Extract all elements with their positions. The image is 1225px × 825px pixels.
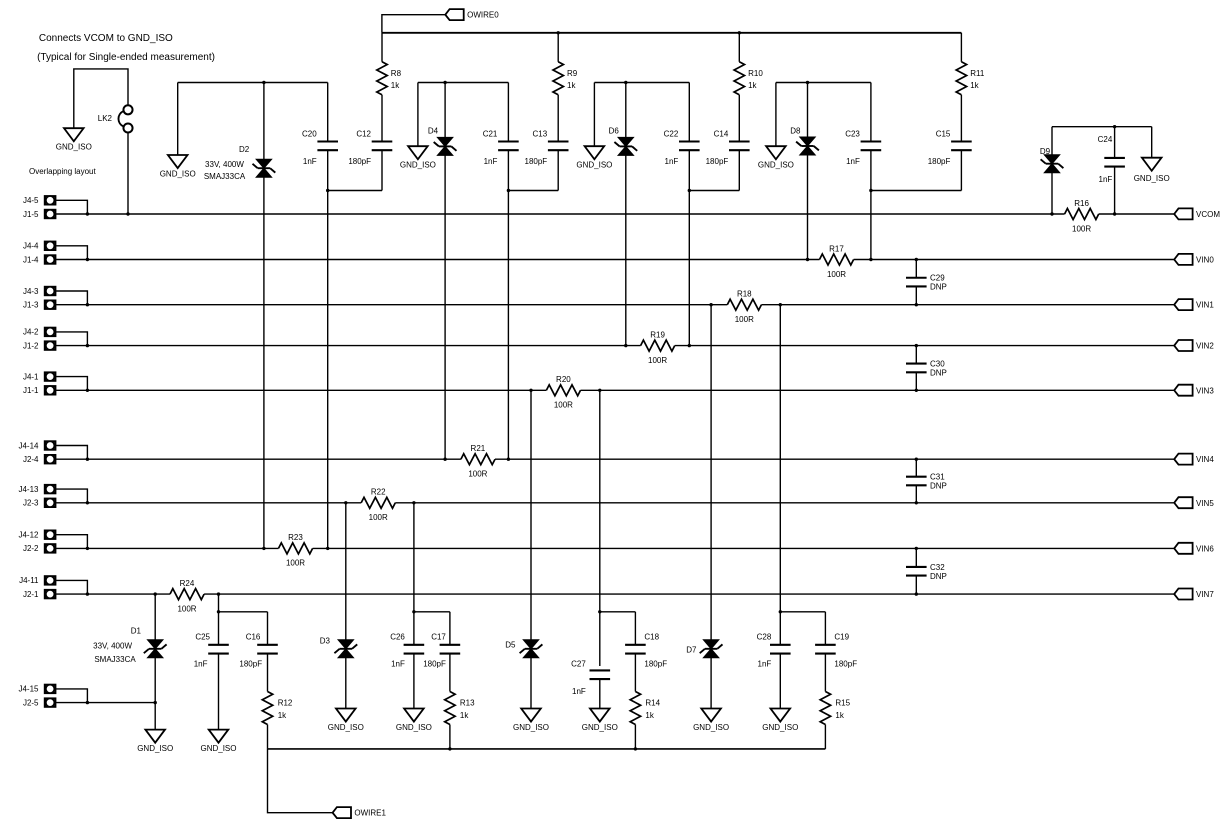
connector pin J2-2 (45, 544, 55, 552)
svg-text:J1-3: J1-3 (23, 301, 39, 310)
connector pin J1-1 (45, 386, 55, 394)
wire D4 gnd stem (417, 83, 419, 147)
wire J4-11 stub (56, 580, 87, 594)
connector pin J4-5 (45, 196, 55, 204)
svg-text:1k: 1k (391, 81, 400, 90)
wire VIN2 row left segment (56, 345, 641, 347)
svg-text:C12: C12 (356, 130, 371, 139)
wire C28 bottom lead (779, 654, 781, 709)
svg-text:GND_ISO: GND_ISO (400, 161, 436, 170)
ground GND_ISO (D7) (701, 709, 721, 722)
wire J4-2 stub (56, 332, 87, 346)
wire D4 block top rail (418, 82, 509, 84)
connector pin J1-3 (45, 301, 55, 309)
link LK2 (123, 105, 132, 114)
connector pin J4-14 (45, 441, 55, 449)
TVS diode D3 (338, 640, 354, 649)
wire C21 join 180pF (508, 190, 558, 192)
wire J4-3 stub (56, 291, 87, 305)
svg-text:C25: C25 (195, 633, 210, 642)
svg-text:J1-4: J1-4 (23, 255, 39, 264)
wire C32 top lead (915, 548, 917, 567)
svg-text:180pF: 180pF (834, 660, 857, 669)
svg-text:1k: 1k (567, 81, 576, 90)
wire D4 vertical (444, 83, 446, 460)
svg-text:1k: 1k (460, 711, 469, 720)
connector pin J4-1 (45, 373, 55, 381)
svg-text:GND_ISO: GND_ISO (396, 723, 432, 732)
net flag VCOM (1174, 208, 1192, 219)
wire C23 join 180pF (871, 190, 962, 192)
wire VIN3 row left segment (56, 389, 546, 391)
svg-text:1nF: 1nF (1099, 175, 1113, 184)
svg-text:1nF: 1nF (758, 660, 772, 669)
connector pin J4-3 (45, 287, 55, 295)
svg-text:C16: C16 (246, 633, 261, 642)
svg-text:1k: 1k (835, 711, 844, 720)
resistor R8 1k (377, 62, 387, 95)
wire C24 vertical bottom (1114, 167, 1116, 214)
wire VIN6 row left segment (56, 547, 278, 549)
svg-text:R13: R13 (460, 698, 475, 707)
capacitor C14 180pF (729, 140, 750, 142)
svg-text:180pF: 180pF (348, 157, 371, 166)
wire D6 block top rail (594, 82, 689, 84)
wire D3 vertical (345, 503, 347, 709)
connector pin J4-13 (45, 485, 55, 493)
TVS diode D7 (703, 640, 719, 649)
svg-text:R24: R24 (180, 579, 195, 588)
svg-text:180pF: 180pF (928, 157, 951, 166)
wire C21 vertical top (507, 83, 509, 142)
svg-text:C27: C27 (571, 660, 586, 669)
wire VIN7 row right segment (204, 593, 1174, 595)
wire C19 top lead (824, 612, 826, 645)
capacitor C26 1nF (404, 644, 425, 646)
wire C23 vertical top (870, 83, 872, 142)
ground GND_ISO (D1) (145, 730, 165, 743)
svg-text:D6: D6 (609, 127, 620, 136)
svg-text:C23: C23 (845, 130, 860, 139)
wire OWIRE1 stem (268, 749, 333, 813)
svg-text:OWIRE1: OWIRE1 (354, 809, 386, 818)
svg-text:1k: 1k (645, 711, 654, 720)
capacitor C24 1nF (1104, 157, 1125, 159)
svg-text:33V, 400W: 33V, 400W (93, 642, 132, 651)
svg-text:C15: C15 (936, 130, 951, 139)
capacitor C29 DNP (906, 277, 927, 279)
TVS diode D5 (523, 640, 539, 649)
svg-text:100R: 100R (468, 470, 487, 479)
wire C17 top lead (449, 612, 451, 645)
connector pin J4-2 (45, 328, 55, 336)
resistor R20 100R (546, 385, 580, 396)
wire block1 branch (219, 611, 268, 613)
svg-text:GND_ISO: GND_ISO (137, 744, 173, 753)
wire C31 bottom lead (915, 485, 917, 502)
svg-text:C24: C24 (1098, 135, 1113, 144)
resistor R14 1k (630, 692, 640, 725)
svg-text:GND_ISO: GND_ISO (160, 169, 196, 178)
resistor R13 1k (445, 692, 455, 725)
svg-text:1nF: 1nF (572, 687, 586, 696)
wire C28 riser (779, 305, 781, 645)
svg-text:VCOM: VCOM (1196, 210, 1220, 219)
svg-text:C22: C22 (664, 130, 679, 139)
wire D9 vertical (1051, 127, 1053, 214)
svg-text:GND_ISO: GND_ISO (693, 723, 729, 732)
connector pin J2-3 (45, 499, 55, 507)
TVS diode D4 (437, 137, 453, 146)
capacitor C28 1nF (770, 644, 791, 646)
resistor R19 100R (641, 340, 675, 351)
net flag VIN2 (1174, 340, 1192, 351)
svg-text:J1-5: J1-5 (23, 210, 39, 219)
svg-text:VIN6: VIN6 (1196, 544, 1214, 553)
svg-text:VIN3: VIN3 (1196, 386, 1214, 395)
svg-text:R19: R19 (650, 330, 665, 339)
wire D8 gnd stem (775, 83, 777, 147)
svg-text:D9: D9 (1040, 147, 1051, 156)
wire VIN5 row left segment (56, 502, 361, 504)
wire C12 bottom lead (381, 150, 383, 190)
svg-text:1nF: 1nF (665, 157, 679, 166)
svg-text:D2: D2 (239, 145, 250, 154)
wire J2-5 to D1 (56, 702, 155, 704)
wire LK2 to VCOM (127, 133, 129, 214)
wire R8 bottom lead (381, 95, 383, 142)
svg-text:J4-3: J4-3 (23, 287, 39, 296)
ground GND_ISO (D6 block) (585, 146, 605, 159)
svg-text:1nF: 1nF (391, 660, 405, 669)
svg-text:Overlapping layout: Overlapping layout (29, 167, 96, 176)
svg-text:100R: 100R (827, 270, 846, 279)
wire VIN1 row right segment (761, 304, 1174, 306)
svg-text:1nF: 1nF (194, 660, 208, 669)
svg-text:1k: 1k (970, 81, 979, 90)
svg-text:100R: 100R (648, 356, 667, 365)
net flag VIN5 (1174, 497, 1192, 508)
wire VCOM row right segment (1099, 213, 1175, 215)
svg-text:C31: C31 (930, 473, 945, 482)
wire C24 vertical top (1114, 127, 1116, 158)
svg-text:180pF: 180pF (239, 660, 262, 669)
wire J4-5 stub (56, 200, 87, 214)
wire C22 vertical top (688, 83, 690, 142)
svg-text:D5: D5 (505, 641, 516, 650)
resistor R17 100R (820, 254, 854, 265)
wire D9 gnd stem (1151, 127, 1153, 158)
svg-text:GND_ISO: GND_ISO (56, 143, 92, 152)
net flag VIN6 (1174, 543, 1192, 554)
connector pin J4-4 (45, 242, 55, 250)
wire R11 top lead (960, 33, 962, 62)
wire D2 vertical (263, 83, 265, 549)
svg-text:J4-2: J4-2 (23, 328, 39, 337)
wire D7 vertical (710, 305, 712, 709)
resistor R15 1k (820, 692, 830, 725)
resistor R21 100R (461, 454, 495, 465)
connector pin J2-4 (45, 455, 55, 463)
capacitor C23 1nF (861, 140, 882, 142)
wire OWIRE1 bus (268, 748, 826, 750)
wire C18 to R14 (634, 654, 636, 692)
wire VIN2 row right segment (675, 345, 1174, 347)
capacitor C32 DNP (906, 566, 927, 568)
svg-text:1nF: 1nF (484, 157, 498, 166)
svg-text:GND_ISO: GND_ISO (513, 723, 549, 732)
wire C20 vertical bottom (327, 150, 329, 548)
wire LK2 gnd bracket (74, 69, 128, 128)
wire C16 to R12 (267, 654, 269, 692)
wire D5 vertical (530, 390, 532, 708)
wire D2 gnd stem (177, 83, 179, 156)
svg-text:180pF: 180pF (706, 157, 729, 166)
wire J4-1 stub (56, 377, 87, 391)
ground GND_ISO (D5) (521, 709, 541, 722)
svg-text:R14: R14 (645, 698, 660, 707)
connector pin J1-2 (45, 342, 55, 350)
wire C16 top lead (267, 612, 269, 645)
svg-text:D3: D3 (320, 637, 331, 646)
ground GND_ISO (D3) (336, 709, 356, 722)
svg-text:OWIRE0: OWIRE0 (467, 11, 499, 20)
svg-text:1k: 1k (748, 81, 757, 90)
svg-text:J4-1: J4-1 (23, 372, 39, 381)
ground GND_ISO (C27) (590, 709, 610, 722)
ground GND_ISO (LK2) (64, 128, 84, 141)
svg-text:R21: R21 (471, 444, 486, 453)
ground GND_ISO (C26) (404, 709, 424, 722)
svg-text:J2-2: J2-2 (23, 544, 39, 553)
ground GND_ISO (D8 block) (766, 146, 786, 159)
wire D8 vertical (807, 83, 809, 260)
net flag VIN4 (1174, 454, 1192, 465)
wire VIN4 row right segment (495, 458, 1174, 460)
svg-text:C28: C28 (757, 633, 772, 642)
capacitor C16 180pF (257, 644, 278, 646)
wire R14 to bus (634, 725, 636, 749)
svg-text:180pF: 180pF (525, 157, 548, 166)
capacitor C27 1nF (590, 669, 611, 671)
svg-text:100R: 100R (177, 604, 196, 613)
svg-text:1nF: 1nF (303, 157, 317, 166)
wire VIN0 row left segment (56, 259, 819, 261)
svg-text:J4-11: J4-11 (19, 576, 39, 585)
wire C18 top lead (634, 612, 636, 645)
wire D3 block branch (414, 611, 450, 613)
TVS diode D1 (147, 640, 163, 649)
svg-text:J2-3: J2-3 (23, 499, 39, 508)
ground GND_ISO (D4 block) (408, 146, 428, 159)
svg-text:SMAJ33CA: SMAJ33CA (94, 655, 136, 664)
svg-text:VIN2: VIN2 (1196, 342, 1214, 351)
svg-text:R10: R10 (748, 69, 763, 78)
wire C22 join 180pF (689, 190, 739, 192)
svg-text:180pF: 180pF (423, 660, 446, 669)
capacitor C25 1nF (208, 644, 229, 646)
capacitor C17 180pF (440, 644, 461, 646)
svg-text:J4-4: J4-4 (23, 242, 39, 251)
wire C26 riser (413, 503, 415, 645)
svg-text:J2-1: J2-1 (23, 590, 39, 599)
capacitor C13 180pF (548, 140, 569, 142)
svg-text:D7: D7 (686, 645, 697, 654)
connector pin J4-15 (45, 685, 55, 693)
svg-text:C32: C32 (930, 563, 945, 572)
wire VIN4 row left segment (56, 458, 461, 460)
wire C29 top lead (915, 260, 917, 278)
wire C32 bottom lead (915, 576, 917, 595)
svg-text:C13: C13 (533, 130, 548, 139)
svg-text:C21: C21 (483, 130, 498, 139)
wire R9 top lead (557, 33, 559, 62)
net flag VIN7 (1174, 589, 1192, 600)
svg-text:33V, 400W: 33V, 400W (205, 160, 244, 169)
svg-text:R16: R16 (1074, 199, 1089, 208)
net flag VIN1 (1174, 299, 1192, 310)
svg-text:C29: C29 (930, 274, 945, 283)
svg-text:100R: 100R (286, 559, 305, 568)
svg-text:LK2: LK2 (98, 114, 113, 123)
svg-text:J4-15: J4-15 (18, 685, 39, 694)
svg-text:VIN5: VIN5 (1196, 499, 1214, 508)
wire C25 riser (218, 594, 220, 645)
net flag OWIRE1 (333, 807, 351, 818)
wire C23 vertical bottom (870, 150, 872, 259)
wire R10 bottom lead (738, 95, 740, 142)
wire C21 vertical bottom (507, 150, 509, 459)
svg-text:R15: R15 (835, 698, 850, 707)
wire C13 bottom lead (557, 150, 559, 190)
wire C19 to R15 (824, 654, 826, 692)
svg-text:C30: C30 (930, 359, 945, 368)
wire C17 to R13 (449, 654, 451, 692)
TVS diode D9 (1044, 155, 1060, 164)
resistor R24 100R (170, 589, 204, 600)
ground GND_ISO (C28) (771, 709, 791, 722)
wire D1 vertical (154, 594, 156, 730)
wire C31 top lead (915, 459, 917, 476)
svg-text:R22: R22 (371, 488, 386, 497)
svg-text:J4-12: J4-12 (18, 531, 39, 540)
svg-text:J1-2: J1-2 (23, 341, 39, 350)
svg-text:GND_ISO: GND_ISO (758, 161, 794, 170)
resistor R11 1k (956, 62, 966, 95)
wire R11 bottom lead (960, 95, 962, 142)
wire C29 bottom lead (915, 286, 917, 304)
wire D8 block top rail (776, 82, 871, 84)
capacitor C18 180pF (625, 644, 646, 646)
wire D2 block top rail (178, 82, 328, 84)
capacitor C19 180pF (815, 644, 836, 646)
svg-text:J4-5: J4-5 (23, 196, 39, 205)
resistor R22 100R (361, 497, 395, 508)
wire VIN3 row right segment (581, 389, 1175, 391)
wire D6 gnd stem (593, 83, 595, 147)
wire D6 vertical (625, 83, 627, 346)
ground GND_ISO (C25) (209, 730, 229, 743)
svg-text:C18: C18 (644, 633, 659, 642)
ground GND_ISO (D2 block) (168, 155, 188, 168)
svg-text:SMAJ33CA: SMAJ33CA (204, 172, 246, 181)
capacitor C21 1nF (498, 140, 519, 142)
TVS diode D6 (618, 137, 634, 146)
svg-text:J1-1: J1-1 (23, 386, 39, 395)
resistor R18 100R (727, 299, 761, 310)
wire J4-15 stub (56, 689, 87, 703)
svg-text:J4-13: J4-13 (18, 485, 39, 494)
resistor R9 1k (553, 62, 563, 95)
svg-text:100R: 100R (1072, 224, 1091, 233)
wire D9 block top rail (1052, 126, 1152, 128)
svg-text:DNP: DNP (930, 572, 947, 581)
wire VIN1 row left segment (56, 304, 727, 306)
svg-text:(Typical for Single-ended meas: (Typical for Single-ended measurement) (37, 52, 215, 63)
connector pin J2-1 (45, 590, 55, 598)
svg-text:VIN4: VIN4 (1196, 455, 1214, 464)
wire D5 block branch (600, 611, 636, 613)
wire J4-14 stub (56, 446, 87, 460)
net flag VIN0 (1174, 254, 1192, 265)
connector pin J4-11 (45, 576, 55, 584)
svg-text:Connects VCOM to GND_ISO: Connects VCOM to GND_ISO (39, 33, 173, 44)
svg-text:D1: D1 (131, 626, 142, 635)
wire C27 bottom lead (599, 679, 601, 708)
svg-text:VIN0: VIN0 (1196, 256, 1214, 265)
capacitor C31 DNP (906, 476, 927, 478)
wire OWIRE0 bus (382, 32, 962, 34)
wire R9 bottom lead (557, 95, 559, 142)
resistor R16 100R (1065, 209, 1099, 220)
svg-text:1nF: 1nF (846, 157, 860, 166)
capacitor C30 DNP (906, 363, 927, 365)
capacitor C22 1nF (679, 140, 700, 142)
svg-text:C20: C20 (302, 130, 317, 139)
svg-text:GND_ISO: GND_ISO (328, 723, 364, 732)
wire C27 riser (599, 390, 601, 666)
svg-text:VIN7: VIN7 (1196, 590, 1214, 599)
wire R13 to bus (449, 725, 451, 749)
svg-text:GND_ISO: GND_ISO (1134, 174, 1170, 183)
wire C30 top lead (915, 346, 917, 364)
wire VIN0 row right segment (854, 259, 1175, 261)
resistor R23 100R (279, 543, 313, 554)
svg-text:VIN1: VIN1 (1196, 301, 1214, 310)
wire VIN5 row right segment (395, 502, 1174, 504)
svg-text:100R: 100R (369, 513, 388, 522)
wire C30 bottom lead (915, 372, 917, 390)
wire J4-4 stub (56, 246, 87, 260)
connector pin J4-12 (45, 531, 55, 539)
svg-text:GND_ISO: GND_ISO (576, 161, 612, 170)
wire R8 top lead (381, 33, 383, 62)
wire VIN6 row right segment (313, 547, 1175, 549)
TVS diode D8 (800, 137, 816, 146)
ground GND_ISO (D9 block) (1142, 158, 1162, 171)
TVS diode D2 (256, 159, 272, 168)
wire D7 block branch (780, 611, 825, 613)
resistor R10 1k (734, 62, 744, 95)
svg-text:D8: D8 (790, 126, 801, 135)
wire VCOM row left segment (56, 213, 1065, 215)
connector pin J1-5 (45, 210, 55, 218)
svg-text:100R: 100R (735, 315, 754, 324)
svg-text:R17: R17 (829, 244, 844, 253)
svg-text:R18: R18 (737, 290, 752, 299)
svg-text:R23: R23 (288, 533, 303, 542)
connector pin J1-4 (45, 255, 55, 263)
